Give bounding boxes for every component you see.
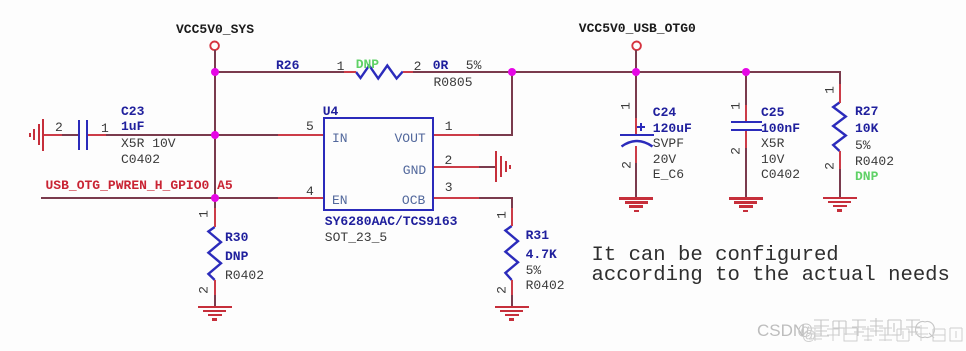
wire: VCC5V0_USB_OTG0 drop and C24 top: [635, 50, 637, 118]
capacitor C25 plates: [731, 121, 762, 123]
op-amp U4 body box: [323, 117, 433, 211]
ground left of C23 (pointing left): [42, 119, 44, 151]
power port circle VCC5V0_USB_OTG0: [632, 42, 641, 51]
wire: ground to C23 pin2: [43, 134, 62, 136]
resistor R26 zigzag: [356, 66, 403, 79]
junction at C25 drop: [742, 68, 750, 76]
wire: GND pin2 to ground: [434, 166, 480, 168]
junction at VOUT riser: [508, 68, 516, 76]
wire: OCB corner down to R31: [511, 197, 513, 208]
capacitor C23 labels: [121, 105, 144, 118]
wire: rail down to C25: [745, 71, 747, 105]
ground below C24: [619, 197, 653, 200]
wire: USB_OTG_PWREN net to EN pin4: [41, 197, 278, 199]
wire: R27 bottom to ground: [839, 151, 841, 169]
wire: R31 bottom to ground: [511, 280, 513, 295]
capacitor C24 curved plate: [622, 141, 653, 147]
ground below R30: [198, 306, 232, 309]
wire: VOUT pin1 to corner: [434, 134, 480, 136]
ground below R31: [495, 306, 529, 309]
wire: OCB pin3 to corner: [434, 197, 480, 199]
net label VCC5V0_SYS: [176, 23, 254, 36]
resistor R30 labels: [225, 231, 248, 244]
resistor R30 zigzag: [208, 227, 221, 280]
junction at SYS rail: [211, 68, 219, 76]
wire: top rail from SYS junction to R26 pin1: [214, 71, 345, 73]
power port circle VCC5V0_SYS: [210, 42, 219, 51]
wire: R26 pin2 stub: [403, 71, 413, 73]
capacitor C24 labels: [653, 106, 676, 119]
note text: [592, 246, 950, 287]
ground below R27: [823, 197, 857, 200]
op-amp U4 labels: [323, 105, 339, 118]
wire: C24 bottom to ground: [635, 146, 637, 163]
junction at C23/IN line: [211, 131, 219, 139]
watermark: [757, 321, 805, 341]
net label USB_OTG_PWREN_H_GPIO0 A5: [46, 179, 233, 192]
capacitor C24 straight plate and plus: [620, 134, 653, 137]
resistor R27 zigzag: [833, 103, 846, 152]
resistor R27 labels: [855, 105, 878, 118]
wire: C25 bottom to ground: [745, 131, 747, 148]
junction at OTG0 drop: [632, 68, 640, 76]
U4 pin numbers: [306, 120, 314, 133]
ground at U4 GND pin (pointing right): [495, 151, 497, 182]
junction at EN line: [211, 194, 219, 202]
wire: rail corner down to R27: [839, 71, 841, 84]
wire: top rail from R26 to R27 corner: [413, 71, 841, 73]
wire: EN junction down to R30: [214, 198, 216, 208]
capacitor C25 labels: [761, 106, 784, 119]
net label VCC5V0_USB_OTG0: [579, 22, 696, 35]
capacitor C23 plates: [78, 120, 80, 150]
wire: VCC5V0_SYS vertical drop: [214, 50, 216, 199]
resistor R26 labels: [276, 59, 299, 72]
wire: C23 pin1 to IN pin5: [88, 134, 106, 136]
resistor R31 zigzag: [505, 226, 518, 280]
wire: R30 bottom to ground: [214, 280, 216, 295]
wire: VOUT corner vertical up to rail: [511, 71, 513, 136]
resistor R31 labels: [526, 229, 549, 242]
ground below C25: [729, 197, 763, 200]
